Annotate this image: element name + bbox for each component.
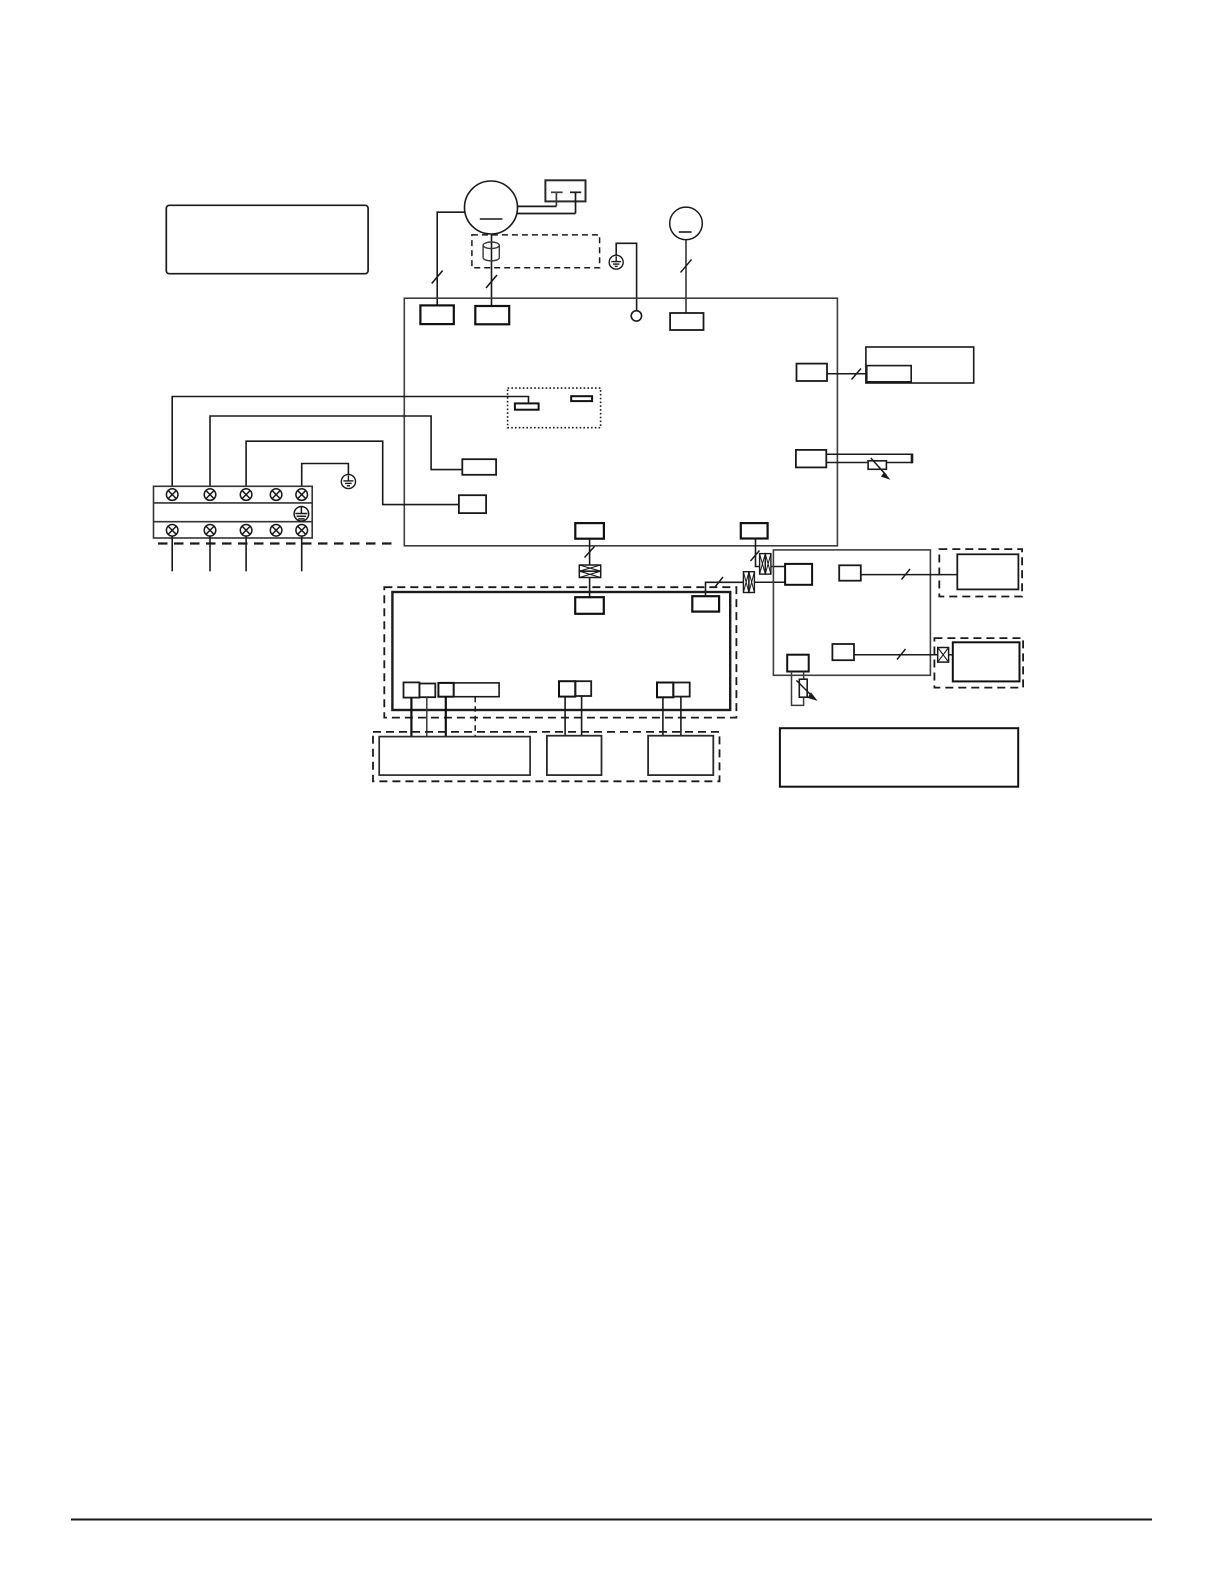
dashed boundary around bottom motors — [373, 732, 720, 781]
legend box (notes box, top-left) — [166, 205, 368, 273]
wire-break slash below CN8 — [751, 551, 760, 562]
dashed wire indoor fan lead 4 — [474, 697, 476, 737]
fan motor FM (circle) — [670, 207, 703, 240]
connector CN5 right side of PCB — [796, 450, 826, 468]
lower connector pair (vertical rects) — [743, 572, 754, 593]
connector CN2 on PCB top — [475, 306, 509, 324]
thermistor loop wiring — [826, 454, 912, 464]
display PCB box — [957, 554, 1018, 589]
remote sensor PCB box — [953, 642, 1020, 681]
thermal protector cylinder on compressor lead — [483, 242, 499, 261]
capacitor C1 box — [545, 180, 585, 201]
wire CN8 down to upper connector pair — [756, 539, 760, 567]
field wiring stub 3 — [245, 536, 247, 571]
terminal 3 (top row 5) — [296, 489, 308, 501]
wire CN-D to display PCB — [861, 574, 958, 576]
wire CN-E to X-connector — [854, 654, 938, 656]
wire terminal5 to earth ground E2 — [302, 464, 349, 487]
field wiring stub 4 — [301, 536, 303, 571]
wire terminal3 to CN-B — [246, 441, 459, 504]
wire compressor to capacitor upper — [517, 205, 556, 207]
wire earth E1 to PCB screw terminal — [616, 243, 636, 310]
wire-break slash on CN-D wire — [902, 569, 911, 580]
wire louver motor lead 1 — [662, 697, 664, 735]
wire CN4 to reactor box — [827, 373, 866, 375]
earth ground symbol E1 — [609, 255, 623, 269]
wire fan motor to connector — [685, 240, 687, 313]
connector CN10d (wide) — [454, 683, 499, 697]
terminal bottom row 4 — [270, 525, 282, 537]
wire-break slash on box G wire — [715, 577, 723, 587]
connector CN10b — [419, 684, 435, 698]
terminal L (top row 1) — [166, 489, 178, 501]
connector CN-D in right unit — [839, 565, 861, 580]
upper connector pair (vertical rects) — [760, 554, 771, 575]
wire CN6 down to connector pair — [589, 539, 591, 565]
outdoor thermistor TH1 (rect with arrow) — [868, 461, 886, 470]
wire terminal2 to CN-A — [210, 416, 462, 486]
fan motor label underline — [679, 231, 692, 233]
terminal N (top row 2) — [204, 489, 216, 501]
connector CN12b — [673, 683, 689, 697]
earth ground symbol E2 — [341, 474, 355, 488]
terminal bottom row 1 — [166, 525, 178, 537]
capacitor C1 right terminal — [570, 192, 581, 213]
connector CN11b — [575, 681, 591, 696]
wire indoor fan motor lead 2 — [426, 697, 428, 737]
connector CN1 on PCB top — [420, 305, 453, 324]
connector CN-B on PCB — [459, 495, 486, 513]
dashed box around thermal protector — [472, 235, 600, 268]
box C terminal block of right unit — [785, 564, 812, 585]
connector CN7 on indoor PCB — [575, 597, 604, 614]
vane motor box — [547, 736, 602, 775]
wire compressor left lead down to connector — [437, 212, 465, 305]
connector CN10a on indoor PCB bottom — [404, 682, 420, 697]
indoor fan motor box — [379, 737, 530, 776]
thermistor TH2 loop wiring — [792, 672, 804, 706]
terminal bottom row 5 — [296, 525, 308, 537]
relay contact bar 2 — [571, 396, 592, 401]
relay contact bar 1 — [515, 403, 539, 409]
connector CN-F (room thermistor) in right unit — [787, 655, 809, 672]
dashed box around display PCB — [939, 549, 1022, 596]
terminal 2 (top row 4) — [270, 489, 282, 501]
field wiring stub 1 — [171, 536, 173, 571]
wire terminal1 to relay group — [172, 397, 528, 487]
wire indoor fan motor lead 1 — [410, 698, 412, 737]
indoor PCB outline — [392, 592, 730, 710]
reactor outer box — [866, 347, 974, 383]
box G (wired controller terminal) — [692, 596, 719, 611]
footer rule — [71, 1519, 1152, 1521]
protective earth terminal in block — [294, 507, 309, 522]
connector CN-E in right unit — [832, 644, 854, 660]
thermistor TH2 (rect with arrow) — [799, 679, 807, 697]
wire-break slash on compressor bottom lead — [486, 275, 497, 288]
wire-break slash on CN4 wire — [852, 369, 862, 380]
connector CN3 (fan) on PCB top — [670, 313, 703, 330]
connector pair (horizontal, outdoor-indoor link) — [579, 565, 600, 578]
louver motor box — [648, 736, 713, 775]
wire lower connector pair to indoor box C — [754, 581, 785, 583]
wire-break slash on compressor left lead — [432, 271, 443, 284]
wire indoor fan motor lead 3 — [445, 697, 447, 737]
wire vane motor lead 2 — [581, 696, 583, 736]
connector CN4 right side of PCB — [797, 364, 828, 381]
wire vane motor lead 1 — [564, 697, 566, 736]
terminal bottom row 2 — [204, 525, 216, 537]
connector CN11a middle pair — [559, 681, 575, 696]
capacitor C1 left terminal — [551, 192, 563, 206]
connector CN8 on PCB bottom right — [741, 523, 768, 538]
indoor unit dashed boundary box — [384, 587, 736, 717]
wire-break slash on CN-E wire — [897, 649, 906, 660]
wire compressor to capacitor lower — [517, 213, 576, 215]
wire connector pair down to CN7 — [589, 578, 591, 598]
compressor motor CM (circle) — [465, 181, 518, 234]
wire X-connector to remote sensor PCB — [949, 654, 953, 656]
field wiring stub 2 — [209, 536, 211, 571]
dotted box (relay group) on PCB — [508, 388, 601, 428]
connector CN-A on PCB — [462, 459, 496, 475]
dashed box around remote sensor PCB — [934, 638, 1023, 688]
wire-break slash on fan motor lead — [681, 260, 692, 273]
connector CN10c — [438, 683, 453, 697]
wire compressor bottom lead down to connector — [491, 234, 493, 306]
wire box G up and right to lower connector pair — [706, 582, 744, 596]
terminal block TB1 outline — [154, 486, 313, 538]
screw terminal circle on PCB — [631, 311, 641, 321]
notes box bottom right — [780, 728, 1018, 787]
wire louver motor lead 2 — [680, 697, 682, 736]
compressor label underline — [480, 218, 503, 220]
terminal bottom row 3 — [240, 525, 252, 537]
terminal 1 (top row 3) — [240, 489, 252, 501]
outdoor PCB outline — [404, 298, 837, 546]
display / control unit outline (right unit) — [773, 550, 930, 675]
reactor inner box — [867, 366, 911, 382]
wire upper connector pair to indoor box C — [771, 566, 785, 568]
wire-break slash below CN6 — [585, 547, 595, 558]
X-connector on CN-E wire — [938, 648, 949, 663]
outdoor unit dashed boundary — [158, 542, 396, 544]
connector CN12a right pair — [657, 683, 673, 698]
connector CN6 on PCB bottom — [575, 523, 604, 539]
